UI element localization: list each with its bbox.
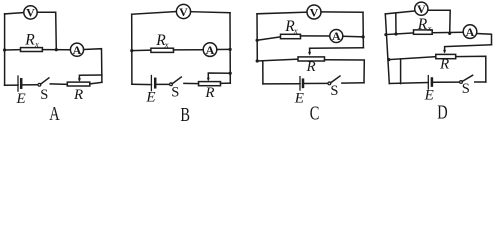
wire top right C xyxy=(321,11,363,13)
svg-text:x: x xyxy=(293,25,298,35)
node junction A below V drop xyxy=(55,48,58,51)
svg-text:x: x xyxy=(164,39,169,49)
wire top D xyxy=(385,11,415,14)
wire top right B xyxy=(191,12,230,13)
svg-text:A: A xyxy=(332,29,341,43)
svg-text:S: S xyxy=(330,83,338,99)
wire battery to switch C xyxy=(303,82,328,84)
wire Rx to ammeter B xyxy=(174,49,204,51)
node junction D V right drop xyxy=(448,32,451,35)
svg-text:D: D xyxy=(437,100,447,123)
ammeter A (circuit C) xyxy=(330,29,343,43)
wire rheostat to right corner A xyxy=(90,82,102,84)
switch S (circuit D) xyxy=(460,75,473,83)
resistor Rx (circuit B) xyxy=(151,48,174,52)
voltmeter V (circuit A) xyxy=(24,6,37,20)
battery E (circuit C) xyxy=(300,77,303,90)
wire switch to right corner D xyxy=(475,81,486,83)
wire top left A xyxy=(5,13,24,14)
svg-text:A: A xyxy=(466,25,475,39)
wire right edge upper C xyxy=(362,12,364,48)
svg-text:C: C xyxy=(310,101,320,124)
svg-text:R: R xyxy=(306,59,316,75)
wire mid row left A xyxy=(5,49,21,51)
slider arrowhead A xyxy=(78,78,81,82)
resistor Rx (circuit D) xyxy=(414,30,433,34)
svg-text:S: S xyxy=(462,81,470,97)
wire bottom-left drop D xyxy=(400,59,402,84)
svg-text:x: x xyxy=(34,39,39,49)
wire bottom left A xyxy=(5,84,18,86)
voltmeter V (circuit B) xyxy=(176,4,190,19)
node junction B slider tap xyxy=(229,72,232,75)
wire rheostat row left D xyxy=(389,57,436,60)
wire rheostat right down to bottom C xyxy=(325,60,365,83)
svg-text:R: R xyxy=(204,85,214,101)
rheostat R body (circuit A) xyxy=(67,82,90,86)
svg-text:R: R xyxy=(417,16,428,33)
svg-text:R: R xyxy=(439,57,449,73)
svg-text:R: R xyxy=(73,87,83,103)
wire switch to rheostat B xyxy=(184,82,199,84)
wire left edge A xyxy=(4,14,6,85)
node junction B mid right xyxy=(229,48,232,51)
svg-text:E: E xyxy=(16,91,26,107)
wire V right drop D xyxy=(428,10,450,33)
wire mid row left B xyxy=(132,49,151,52)
svg-text:A: A xyxy=(73,43,82,57)
battery E (circuit B) xyxy=(151,76,155,91)
node junction A left mid xyxy=(3,48,6,51)
svg-text:E: E xyxy=(424,88,434,104)
wire ammeter to right edge B xyxy=(217,48,230,50)
svg-text:A: A xyxy=(206,43,215,57)
svg-text:E: E xyxy=(145,90,155,106)
wire switch to rheostat A xyxy=(50,83,67,85)
node junction C rheostat row left xyxy=(256,59,259,62)
battery E (circuit D) xyxy=(428,76,432,89)
wire rheostat row left C xyxy=(257,59,298,61)
node junction D rheostat row left xyxy=(387,58,390,61)
node junction B mid left xyxy=(130,49,133,52)
wire rheostat slider tap B xyxy=(208,73,230,80)
resistor Rx (circuit A) xyxy=(21,48,43,52)
wire ammeter to right upper corner D xyxy=(477,34,492,45)
wire rheostat right down to bottom D xyxy=(456,56,486,82)
rheostat R body (circuit D) xyxy=(436,54,456,58)
wire top left C xyxy=(257,12,307,14)
wire Rx to ammeter D xyxy=(432,31,463,34)
wire bottom left D xyxy=(389,83,428,84)
svg-text:A: A xyxy=(49,102,60,124)
battery E (circuit A) xyxy=(18,76,21,91)
wire rheostat slider tap A xyxy=(79,75,102,80)
wire Rx to ammeter C xyxy=(301,35,330,37)
wire rheostat slider tap C xyxy=(310,48,364,54)
ammeter A (circuit B) xyxy=(203,43,217,57)
wire ammeter to right edge C xyxy=(343,35,363,38)
rheostat R body (circuit B) xyxy=(199,82,221,86)
ammeter A (circuit D) xyxy=(463,25,477,39)
rheostat R body (circuit C) xyxy=(298,57,325,61)
svg-text:S: S xyxy=(40,87,48,103)
svg-text:V: V xyxy=(417,2,426,16)
node junction C right xyxy=(362,35,365,38)
wire V left drop D xyxy=(395,13,397,34)
wire Rx row left D xyxy=(385,33,413,35)
wire top left B xyxy=(132,12,177,15)
svg-text:R: R xyxy=(24,31,35,48)
switch S (circuit B) xyxy=(170,77,182,86)
wire switch to right corner C xyxy=(342,82,364,84)
switch S (circuit A) xyxy=(38,78,49,86)
node junction C left Rx row xyxy=(256,39,259,42)
wire right edge B xyxy=(229,13,231,84)
wire battery to switch D xyxy=(432,81,460,83)
voltmeter V (circuit C) xyxy=(307,5,321,19)
wire battery to switch A xyxy=(21,84,38,86)
slider arrowhead D xyxy=(443,50,446,54)
svg-text:V: V xyxy=(179,5,188,19)
svg-text:V: V xyxy=(310,5,319,19)
switch S (circuit C) xyxy=(328,76,340,85)
slider arrowhead B xyxy=(207,78,210,82)
wire rheostat to right corner B xyxy=(221,82,231,84)
wire battery to switch B xyxy=(155,83,169,85)
svg-text:x: x xyxy=(427,23,432,33)
wire Rx row left C xyxy=(257,37,280,40)
wire left drop to bottom C xyxy=(262,61,264,84)
node junction D V left drop xyxy=(394,32,397,35)
voltmeter V (circuit D) xyxy=(415,2,428,16)
wire rheostat slider tap D xyxy=(445,45,492,52)
svg-text:S: S xyxy=(171,85,179,101)
wire Rx to ammeter A xyxy=(42,49,70,51)
wire left edge B xyxy=(131,14,133,84)
svg-text:E: E xyxy=(294,90,304,106)
wire bottom left B xyxy=(132,83,152,85)
slider arrowhead C xyxy=(308,52,311,56)
ammeter A (circuit A) xyxy=(70,43,83,57)
resistor Rx (circuit C) xyxy=(281,34,301,38)
wire ammeter to right edge A xyxy=(84,49,102,82)
wire left edge D xyxy=(385,14,389,84)
wire V to right drop A xyxy=(37,12,56,50)
svg-text:V: V xyxy=(26,6,35,20)
svg-text:B: B xyxy=(180,102,190,124)
wire bottom left C xyxy=(263,83,300,85)
wire left edge C xyxy=(256,14,258,61)
node junction D left edge Rx row xyxy=(384,33,387,36)
